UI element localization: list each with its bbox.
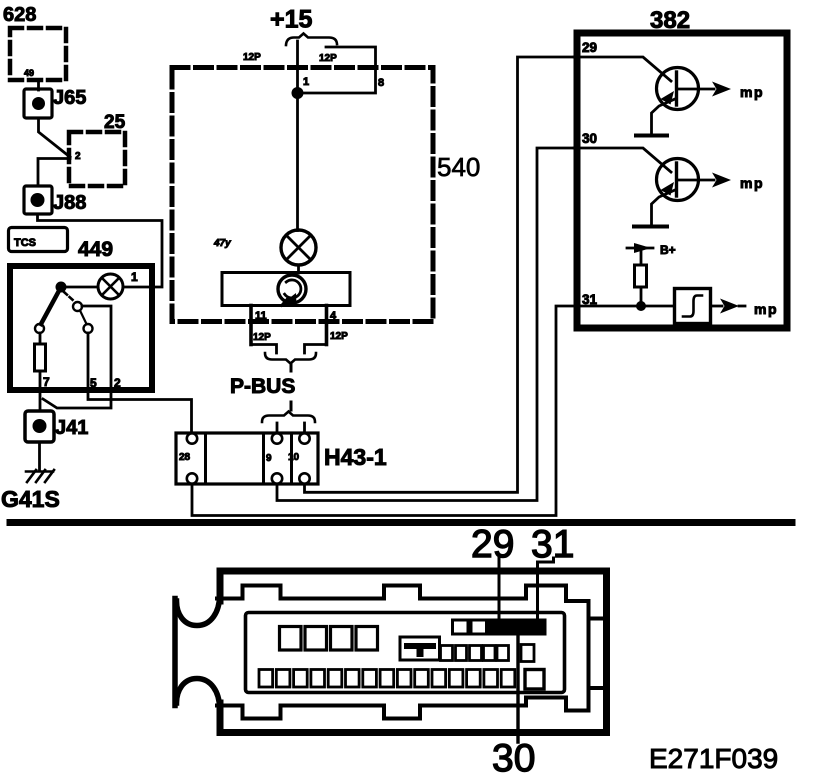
leader 29 bbox=[498, 558, 501, 620]
svg-text:5: 5 bbox=[90, 376, 97, 390]
P-BUS dashed link upper bbox=[290, 363, 293, 371]
pin 9 terminals bbox=[272, 433, 282, 443]
svg-text:B+: B+ bbox=[660, 243, 676, 257]
connector left latch bar bbox=[172, 599, 178, 706]
middle row cavity right of leader bbox=[521, 645, 534, 662]
wire J41 to ground bbox=[38, 442, 41, 471]
wire pin11 jog bbox=[251, 345, 277, 354]
H43-1 divider 2 bbox=[262, 433, 265, 484]
svg-text:4: 4 bbox=[330, 310, 337, 322]
joint J88 bbox=[24, 186, 52, 214]
connector inner contour top bbox=[217, 586, 603, 619]
svg-text:TCS: TCS bbox=[14, 237, 36, 249]
svg-text:449: 449 bbox=[78, 238, 113, 261]
wire contact b to pin 2 bbox=[82, 306, 111, 390]
small cavity left of highlight bbox=[453, 620, 469, 634]
middle row cavity 3 bbox=[470, 646, 482, 661]
Q2 collector to mp arrow bbox=[677, 179, 715, 182]
trigger U1 box with step symbol bbox=[675, 289, 711, 324]
top row large cavity 4 bbox=[356, 627, 378, 651]
svg-text:30: 30 bbox=[492, 737, 535, 780]
B+ feed symbol bbox=[627, 247, 653, 250]
PART1: top-left chain 628/J65/25/J88 bbox=[3, 4, 162, 287]
svg-text:12P: 12P bbox=[243, 52, 261, 63]
unit 540 (dashed box) bbox=[172, 68, 433, 322]
junction node pin31 bbox=[636, 301, 646, 311]
PART5: 382 box bbox=[574, 7, 787, 328]
wire resistor to pin31 node bbox=[640, 287, 643, 306]
svg-text:J88: J88 bbox=[53, 192, 86, 214]
resistor in 449 bbox=[35, 344, 46, 371]
connector 628 (dashed box) bbox=[10, 28, 66, 80]
PART6: separator and bottom connector bbox=[10, 523, 792, 781]
wire pin30 to transistor Q2 base bbox=[574, 148, 671, 172]
connector inner contour bottom bbox=[217, 688, 589, 719]
wire J88 to 449 pin1 bbox=[38, 214, 163, 287]
svg-text:1: 1 bbox=[303, 76, 309, 88]
H43-1 divider 1 bbox=[204, 433, 207, 484]
wire H43-1 pin10 to 382 pin29 bbox=[305, 57, 575, 492]
svg-text:8: 8 bbox=[378, 77, 384, 89]
wire brace to H43-1 pin9 bbox=[276, 423, 279, 433]
wire H43-1 pin28 to 382 pin31 bbox=[192, 306, 576, 516]
PART2: 449 switch box bbox=[1, 228, 192, 513]
gauge box bbox=[222, 273, 350, 306]
svg-text:11: 11 bbox=[255, 310, 267, 322]
svg-text:J65: J65 bbox=[53, 87, 86, 109]
unit 449 (box) bbox=[10, 266, 152, 390]
svg-text:mp: mp bbox=[754, 301, 778, 317]
svg-text:29: 29 bbox=[582, 40, 597, 55]
switch arm b-c bbox=[80, 311, 87, 325]
P-BUS overbrace bbox=[262, 412, 315, 423]
joint J41 bbox=[25, 411, 54, 442]
svg-text:10: 10 bbox=[288, 452, 300, 463]
svg-text:628: 628 bbox=[3, 4, 36, 26]
wire lamp to switch common bbox=[61, 286, 98, 289]
connector latch bottom bite bbox=[177, 679, 220, 709]
middle row cavity 2 bbox=[456, 646, 467, 661]
PART3: 540 dashed ECU box bbox=[172, 6, 480, 434]
P-BUS dashed link lower bbox=[290, 402, 293, 410]
ground bar Q1 bbox=[636, 134, 667, 138]
wire B+ to resistor bbox=[640, 250, 643, 265]
svg-text:P-BUS: P-BUS bbox=[230, 375, 295, 398]
bottom row cavities bbox=[259, 670, 515, 688]
joint J65 bbox=[24, 89, 52, 118]
top row large cavity 1 bbox=[280, 627, 302, 651]
keyed cavity with T bbox=[400, 637, 440, 660]
svg-text:+15: +15 bbox=[270, 6, 313, 34]
wire H43-1 pin9 to 382 pin30 bbox=[277, 148, 574, 501]
ground bar Q2 bbox=[634, 225, 667, 229]
svg-text:29: 29 bbox=[471, 523, 514, 566]
switch contact a bbox=[35, 324, 44, 333]
svg-text:J41: J41 bbox=[55, 417, 88, 439]
svg-text:E271F039: E271F039 bbox=[649, 743, 778, 774]
leader 31 bbox=[538, 558, 554, 620]
wire 449 pin5 to H43-1 pin28 bbox=[88, 390, 192, 433]
PART4: P-BUS and H43-1 bbox=[176, 57, 576, 516]
transistor Q2 bbox=[657, 159, 699, 201]
TCS tag box bbox=[9, 228, 68, 252]
wire 25 pin2 to J88 bbox=[38, 159, 70, 187]
indicator lamp in 449 bbox=[98, 274, 123, 299]
wire contact a to resistor bbox=[39, 333, 42, 344]
svg-text:mp: mp bbox=[740, 84, 764, 100]
wire J65 to 25 pin2 bbox=[39, 118, 71, 157]
transistor Q1 bbox=[657, 68, 699, 110]
ground G41S symbol bbox=[26, 470, 53, 473]
wire brace to H43-1 pin10 bbox=[303, 423, 306, 433]
wire 628 pin49 to J65 bbox=[37, 80, 40, 90]
connector right pocket bbox=[589, 619, 604, 689]
svg-text:49: 49 bbox=[24, 68, 34, 78]
switch common junction bbox=[56, 282, 67, 293]
unit 382 (box) bbox=[577, 33, 787, 328]
U1 output to mp arrow bbox=[711, 305, 723, 308]
connector body outer rect bbox=[220, 571, 607, 733]
wire +15 into pin 1 bbox=[296, 41, 299, 231]
wire 449 pin2 to ground node bbox=[43, 390, 111, 408]
H43-1 divider 3 bbox=[290, 433, 293, 484]
svg-text:12P: 12P bbox=[253, 332, 271, 343]
wire pin29 to transistor Q1 base bbox=[574, 57, 671, 81]
+15 brace bbox=[286, 34, 337, 46]
warning lamp in 540 bbox=[281, 230, 316, 265]
connector H43-1 body bbox=[176, 433, 318, 484]
pin 28 terminals bbox=[187, 433, 197, 443]
svg-text:G41S: G41S bbox=[1, 486, 60, 512]
wire contact c to pin 5 bbox=[87, 333, 90, 390]
Q1 collector to mp arrow bbox=[677, 88, 715, 91]
connector inner pin field box bbox=[246, 613, 565, 693]
resistor R1 in 382 bbox=[635, 265, 647, 287]
middle row cavity 5 bbox=[497, 646, 509, 661]
middle row cavity 4 bbox=[484, 646, 496, 661]
switch arm (solid) bbox=[41, 287, 61, 324]
pin 11 stub bbox=[249, 306, 253, 345]
pin 4 stub bbox=[325, 306, 329, 345]
svg-text:30: 30 bbox=[582, 131, 597, 146]
wire pin31 to trigger U1 bbox=[576, 305, 675, 308]
switch arm (dashed alternate) bbox=[64, 292, 75, 302]
svg-text:mp: mp bbox=[740, 175, 764, 191]
Q2 emitter bbox=[652, 190, 676, 225]
svg-text:28: 28 bbox=[179, 452, 191, 463]
svg-text:540: 540 bbox=[437, 152, 480, 182]
pin 8 loop wire bbox=[298, 47, 376, 93]
svg-text:2: 2 bbox=[75, 151, 81, 162]
switch contact c bbox=[84, 324, 93, 333]
small cavity 2 left of highlight bbox=[471, 620, 487, 634]
wire pin4 jog bbox=[305, 345, 327, 354]
connector 25 (dashed box) bbox=[69, 132, 125, 186]
bottom row last cavity bbox=[525, 670, 544, 690]
Q1 emitter bbox=[652, 99, 676, 134]
separator line bbox=[10, 519, 792, 526]
svg-text:47y: 47y bbox=[213, 238, 231, 249]
top row large cavity 3 bbox=[331, 627, 353, 651]
wire lamp to gauge bbox=[297, 265, 300, 273]
svg-text:9: 9 bbox=[266, 453, 272, 464]
switch contact b bbox=[73, 302, 82, 311]
highlighted pins 29-31 (filled) bbox=[487, 619, 547, 636]
wire resistor to pin 7 bbox=[39, 371, 42, 411]
connector latch top bite bbox=[177, 596, 220, 626]
svg-text:1: 1 bbox=[131, 270, 138, 284]
gauge symbol (circle with curved arrow) bbox=[278, 275, 306, 303]
middle row cavity 1 bbox=[441, 646, 453, 661]
svg-text:H43-1: H43-1 bbox=[324, 444, 387, 470]
junction node pins 1-8 bbox=[292, 87, 304, 99]
svg-text:12P: 12P bbox=[330, 331, 348, 342]
svg-text:12P: 12P bbox=[319, 53, 337, 64]
leader 30 bbox=[516, 634, 519, 742]
svg-text:7: 7 bbox=[43, 375, 50, 389]
top row large cavity 2 bbox=[305, 627, 327, 651]
svg-text:2: 2 bbox=[114, 376, 121, 390]
P-BUS underbrace bbox=[265, 353, 316, 364]
pin 10 terminals bbox=[299, 433, 309, 443]
